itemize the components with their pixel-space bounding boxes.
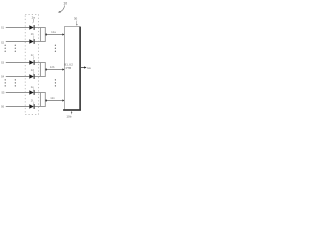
main box U4 (controller) xyxy=(63,27,81,111)
wire D2 to box U1 xyxy=(35,41,41,43)
wire D4 to box U2 xyxy=(35,76,41,78)
diode D3 xyxy=(29,60,34,65)
svg-text:P7B: P7B xyxy=(66,66,72,70)
dashed box (diode array module 2) xyxy=(25,15,38,115)
svg-text:30: 30 xyxy=(74,17,78,21)
svg-text:Uo: Uo xyxy=(87,66,91,70)
label 30 above main box xyxy=(74,17,78,26)
wire S2 to diode D2 xyxy=(6,41,30,43)
ellipsis dots column at input labels xyxy=(5,45,6,52)
wire U1 output xyxy=(46,34,63,36)
diode D6 xyxy=(29,104,34,109)
diode D2 label 2b xyxy=(31,32,34,39)
wire S5 to diode D5 xyxy=(6,92,30,94)
label 10b below main box xyxy=(66,111,72,118)
wire U2 output xyxy=(46,69,63,71)
junction nub U1 output xyxy=(45,34,47,36)
junction nub U2 output xyxy=(45,69,47,71)
wire S1 to diode D1 xyxy=(6,27,30,29)
wire S6 to diode D6 xyxy=(6,106,30,108)
ellipsis dots column at output wires xyxy=(55,45,56,52)
svg-text:2f: 2f xyxy=(31,98,33,102)
wire S3 to diode D3 xyxy=(6,62,30,64)
diode D4 xyxy=(29,74,34,79)
output wire Uo from main box xyxy=(81,67,85,69)
svg-text:12b: 12b xyxy=(50,65,55,69)
ellipsis dots column 2 at input labels xyxy=(5,79,6,86)
svg-text:12n: 12n xyxy=(50,96,55,100)
svg-text:12a: 12a xyxy=(51,30,56,34)
ellipsis dots column at input wires xyxy=(15,45,16,52)
combiner box U2 xyxy=(40,63,45,77)
diode D4 label 2d xyxy=(31,68,34,75)
diode D5 label 2e xyxy=(31,85,34,91)
wire D6 to box U3 xyxy=(35,106,41,108)
wire D5 to box U3 xyxy=(35,92,41,94)
wire D1 to box U1 xyxy=(35,27,41,29)
arrowhead into main box from U3 xyxy=(62,99,64,101)
wire U3 output xyxy=(46,100,63,102)
ellipsis dots column 2 at input wires xyxy=(15,79,16,86)
svg-text:10b: 10b xyxy=(66,114,71,118)
arrowhead output Uo xyxy=(84,66,87,68)
combiner box U1 xyxy=(40,28,45,42)
junction nub U3 output xyxy=(45,100,47,102)
arrowhead into main box from U1 xyxy=(62,33,64,35)
diode D5 xyxy=(29,90,34,95)
diode D3 label 2c xyxy=(31,53,34,60)
svg-text:10: 10 xyxy=(63,2,67,6)
wire S4 to diode D4 xyxy=(6,76,30,78)
arrowhead into main box from U2 xyxy=(62,68,64,70)
combiner box U3 xyxy=(40,93,45,107)
diode D6 label 2f xyxy=(31,98,34,104)
diode D1 xyxy=(29,25,34,30)
ellipsis dots column 2 at output wires xyxy=(55,79,56,86)
svg-text:2a: 2a xyxy=(32,15,36,19)
label 2a on dashed box xyxy=(32,15,36,23)
wire D3 to box U2 xyxy=(35,62,41,64)
leader arrow for numeral 10 xyxy=(58,5,65,12)
diode D2 xyxy=(29,39,34,44)
